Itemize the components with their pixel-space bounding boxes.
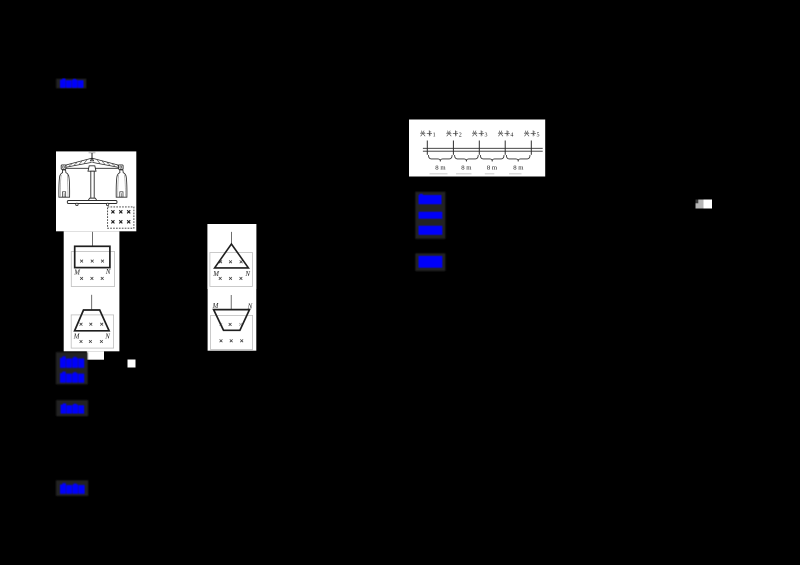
white bottom tab [87, 351, 104, 359]
checkpoint label 5 [524, 131, 539, 139]
svg-text:M: M [73, 334, 80, 341]
answer blob 8 [61, 403, 85, 413]
blue answer blobs [56, 79, 445, 496]
right hook [119, 165, 124, 169]
svg-text:3: 3 [485, 132, 488, 138]
image: checkpoint track [409, 120, 545, 177]
inverted trapezoid conductor loop [214, 310, 250, 331]
checkpoint label 3 [472, 131, 487, 139]
halo 6/7 [56, 352, 88, 384]
image: rectangle loop in field [64, 231, 120, 289]
svg-text:N: N [104, 333, 110, 340]
halo 9 [56, 480, 88, 496]
post [91, 171, 94, 198]
field crosses row 1 [80, 323, 83, 326]
checkpoint label 2 [446, 131, 461, 139]
answer blob 4 [419, 226, 443, 235]
svg-text:M: M [212, 271, 219, 278]
field crosses row 1 [229, 323, 232, 326]
svg-text:M: M [212, 303, 219, 310]
misc small fragments [128, 200, 713, 368]
halo 8 [56, 400, 88, 416]
truss beam left [63, 158, 92, 166]
svg-text:8 m: 8 m [435, 165, 446, 172]
answer blob 1 [60, 79, 84, 88]
image: trapezoid loop in field [64, 289, 120, 360]
field crosses row 1 [80, 260, 83, 263]
image: triangle loop in field [207, 224, 256, 289]
hanging wire [230, 232, 232, 244]
answer blob 2 [419, 194, 442, 204]
svg-text:8 m: 8 m [513, 165, 524, 172]
field region box [211, 315, 253, 349]
hanging wire [92, 232, 94, 247]
field region box [71, 252, 114, 287]
top pin [91, 153, 93, 160]
post base flare [88, 198, 97, 200]
field region box [210, 253, 253, 287]
platform [67, 201, 117, 204]
left weight [59, 170, 70, 197]
double track line [423, 147, 543, 149]
checkpoint label 4 [498, 131, 513, 139]
brace 3 [480, 155, 504, 162]
balance arm [63, 167, 122, 169]
field region box [71, 315, 113, 348]
svg-text:N: N [247, 304, 253, 311]
svg-text:M: M [73, 269, 80, 276]
white background D [208, 289, 257, 351]
tiny white square fragment [128, 360, 136, 368]
platform feet [76, 203, 78, 205]
checkpoint label 1 [420, 131, 435, 139]
svg-text:1: 1 [433, 132, 436, 138]
svg-text:4: 4 [510, 132, 513, 138]
svg-text:8 m: 8 m [487, 165, 498, 172]
white background of balance picture [56, 151, 136, 231]
answer blob 5 [419, 256, 443, 268]
brace 4 [506, 155, 530, 162]
right weight [116, 170, 127, 197]
field crosses row 2 [80, 340, 83, 343]
field crosses row 1 [219, 260, 222, 263]
truss beam right [92, 158, 121, 166]
halo 1 [56, 79, 86, 88]
tick marks [427, 141, 531, 155]
svg-text:8 m: 8 m [461, 165, 472, 172]
field crosses row 2 [219, 277, 222, 280]
answer blob 3 [419, 212, 443, 219]
answer link blob 1 [0, 0, 1, 1]
tiny inline formula image [696, 200, 713, 209]
hanging wire [230, 295, 232, 310]
triangle conductor loop [215, 244, 249, 268]
rectangle conductor loop [75, 246, 110, 267]
center bracket [88, 166, 96, 171]
hanging wire [91, 295, 93, 310]
svg-text:2: 2 [459, 132, 462, 138]
brace 1 [429, 155, 453, 162]
dashed field box with bold crosses [108, 207, 134, 228]
image: balance scale [56, 151, 136, 231]
top cap [89, 151, 96, 153]
svg-text:N: N [244, 271, 250, 278]
halo 5 [415, 253, 445, 271]
white background of track picture [409, 120, 545, 177]
apex knob [90, 158, 93, 161]
answer blob 9 [60, 483, 85, 494]
brace 2 [455, 155, 479, 162]
svg-text:5: 5 [537, 132, 540, 138]
halo group right [415, 192, 445, 239]
white background C [207, 224, 256, 289]
white background B [64, 289, 120, 351]
image: inverted trapezoid loop in field [208, 289, 257, 351]
white background A [64, 231, 120, 289]
left hook [61, 165, 66, 169]
field crosses row 2 [80, 277, 83, 280]
svg-text:N: N [105, 269, 111, 276]
answer blob 7 [60, 372, 84, 383]
faint underline marks [430, 173, 522, 175]
answer blob 6 [60, 356, 84, 367]
field crosses row 2 [220, 339, 223, 342]
trapezoid conductor loop [75, 310, 110, 331]
